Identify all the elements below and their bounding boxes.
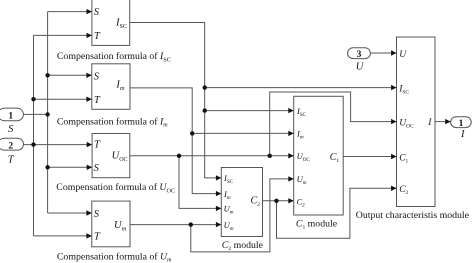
wire T bus to block4 T [34, 235, 92, 237]
arrow into C2 U_m1 [216, 206, 221, 211]
svg-text:C2 module: C2 module [222, 240, 264, 252]
junction I_SC output branch [203, 85, 207, 89]
arrow into output module U [391, 50, 396, 55]
svg-text:ISC: ISC [296, 106, 307, 118]
wire T bus to block2 T [34, 98, 92, 100]
svg-text:UOC: UOC [297, 151, 311, 163]
svg-text:S: S [8, 124, 14, 135]
junction T bus block2 [31, 97, 35, 101]
wire S bus to block4 S [48, 212, 92, 214]
wire I_SC branch to output module [205, 87, 396, 89]
svg-text:U: U [399, 50, 407, 60]
svg-text:2: 2 [8, 142, 13, 152]
svg-text:Im: Im [296, 129, 304, 141]
svg-text:1: 1 [459, 119, 464, 129]
arrow into output module I_SC [391, 85, 396, 90]
junction U_OC C2 branch [177, 154, 181, 158]
svg-text:Compensation formula of Um: Compensation formula of Um [57, 251, 172, 263]
svg-text:S: S [94, 209, 100, 220]
svg-text:1: 1 [8, 112, 13, 122]
svg-text:UOC: UOC [112, 150, 128, 163]
junction I_m C1 branch [190, 131, 194, 135]
arrow into C1 I_m [288, 131, 293, 136]
input port 3 oval [348, 48, 371, 59]
junction T bus input2 [31, 142, 35, 146]
svg-text:C1: C1 [330, 152, 340, 164]
wire output module to output port I [435, 121, 450, 123]
block Compensation formula of U_m [92, 201, 130, 247]
wire S bus to block2 S [48, 74, 92, 76]
block Compensation formula of U_OC [92, 134, 130, 178]
arrow into block1 T [87, 33, 92, 38]
svg-text:I: I [427, 118, 432, 128]
arrow into C1 I_SC [288, 108, 293, 113]
svg-text:T: T [8, 154, 15, 165]
block C2 module [221, 168, 262, 237]
arrow into C2 I_SC [216, 175, 221, 180]
svg-text:3: 3 [357, 50, 362, 60]
block Compensation formula of I_SC [92, 0, 130, 45]
arrow into output port I [445, 119, 450, 124]
svg-text:Um: Um [224, 204, 234, 216]
arrow into C1 C_2 [288, 198, 293, 203]
arrow into C2 I_m [216, 191, 221, 196]
arrow into C1 U_m [288, 176, 293, 181]
wire input 3 to output module U [370, 52, 396, 54]
junction U_m C1 branch [189, 222, 193, 226]
junction S bus input1 [45, 112, 49, 116]
svg-text:Um: Um [114, 220, 127, 233]
arrow into block2 T [86, 97, 91, 102]
svg-text:C2: C2 [297, 196, 306, 208]
svg-text:Compensation formula of UOC: Compensation formula of UOC [56, 182, 175, 194]
wire U_OC branch up to output module [270, 92, 396, 156]
wire S bus to block3 S [48, 166, 92, 168]
svg-text:Compensation formula of Im: Compensation formula of Im [57, 116, 168, 128]
wire I_m output to vertical bus [130, 88, 221, 194]
arrow into output module C_1 [391, 154, 396, 159]
svg-text:Im: Im [223, 189, 231, 201]
block Output characteristics module [397, 37, 436, 207]
wire C2 branch around to output module [277, 188, 397, 238]
wire S bus to block1 S [48, 11, 92, 13]
svg-text:S: S [94, 7, 100, 18]
wire I_SC output to vertical bus [130, 23, 221, 178]
svg-text:Um: Um [224, 220, 234, 232]
wire C2 output to C1 module [263, 200, 294, 202]
block Compensation formula of I_m [92, 64, 130, 110]
svg-text:T: T [94, 232, 101, 243]
arrow into block4 T [86, 233, 91, 238]
svg-text:ISC: ISC [223, 173, 234, 185]
junction S bus block3 [45, 165, 49, 169]
arrow into block1 S [87, 9, 92, 14]
svg-text:Um: Um [297, 174, 307, 186]
svg-text:C2: C2 [251, 196, 261, 208]
wire S bus vertical [47, 12, 49, 213]
svg-text:T: T [94, 31, 101, 42]
wire from input 1 to S bus [23, 113, 47, 115]
junction I_SC C1 branch [203, 108, 207, 112]
svg-text:ISC: ISC [115, 18, 127, 31]
junction S bus block2 [45, 73, 49, 77]
arrow into block4 S [86, 210, 91, 215]
arrow into C2 U_m2 [216, 222, 221, 227]
svg-text:C2: C2 [399, 185, 408, 196]
svg-text:S: S [94, 163, 100, 174]
svg-text:T: T [94, 95, 101, 106]
svg-text:U: U [356, 61, 365, 72]
svg-text:ISC: ISC [398, 85, 409, 96]
wire U_m output to C2 module [130, 224, 221, 226]
svg-text:C1: C1 [399, 153, 408, 164]
arrow into block3 S [87, 165, 92, 170]
svg-text:T: T [94, 140, 101, 151]
arrow into output module U_OC [391, 119, 396, 124]
wire U_OC branch down to C2 module [179, 156, 221, 209]
svg-text:Output characteristis module: Output characteristis module [356, 210, 470, 221]
svg-text:S: S [94, 71, 100, 82]
wire I_m branch to C1 module [192, 132, 293, 134]
wire from input 2 through T bus to block3 T [24, 144, 92, 146]
arrow into block3 T [87, 142, 92, 147]
svg-text:UOC: UOC [399, 119, 414, 130]
wire U_OC output to C1 module [130, 155, 293, 157]
wire U_m branch around to C1 module [191, 179, 293, 252]
input port 2 oval [0, 138, 24, 150]
arrow into output module C_2 [391, 186, 396, 191]
wire T bus vertical [33, 35, 35, 236]
svg-text:Compensation formula of ISC: Compensation formula of ISC [57, 51, 171, 63]
input port 1 oval [0, 108, 23, 121]
junction C2 output branch [274, 199, 278, 203]
wire T bus to block1 T [34, 34, 92, 36]
arrow into block2 S [86, 73, 91, 78]
svg-text:C1 module: C1 module [296, 219, 338, 231]
wire I_SC branch to C1 module [205, 110, 294, 112]
svg-text:Im: Im [115, 80, 125, 93]
wire C1 output to output module [343, 156, 396, 158]
block C1 module [294, 96, 344, 215]
junction U_OC output branch [268, 154, 272, 158]
output port 1 oval [451, 117, 472, 128]
arrow into C1 U_OC [288, 153, 293, 158]
svg-text:I: I [460, 129, 465, 140]
